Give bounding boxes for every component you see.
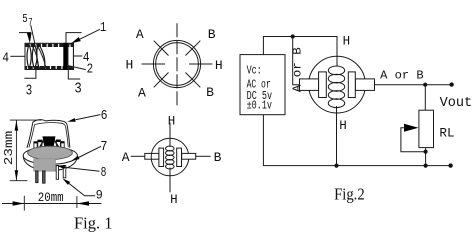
svg-text:5: 5 [22,12,27,26]
svg-text:1: 1 [100,21,106,36]
svg-text:B: B [208,27,216,42]
svg-text:A or B: A or B [290,47,304,92]
svg-text:±0.1v: ±0.1v [247,99,272,113]
svg-text:B: B [206,85,214,100]
svg-text:B: B [214,150,222,165]
svg-text:Fig.2: Fig.2 [334,184,365,203]
svg-text:H: H [339,119,347,133]
svg-text:Vc:: Vc: [247,63,262,77]
svg-text:23mm: 23mm [2,131,16,165]
svg-text:A: A [138,86,146,101]
svg-text:RL: RL [439,125,454,140]
svg-text:2: 2 [87,62,94,77]
svg-text:Fig. 1: Fig. 1 [74,214,113,233]
svg-text:H: H [215,58,223,73]
svg-text:H: H [343,34,351,48]
svg-text:4: 4 [2,51,9,66]
svg-text:9: 9 [96,187,103,202]
svg-text:A: A [136,27,144,42]
svg-text:7: 7 [28,17,32,29]
svg-text:20mm: 20mm [38,190,64,205]
svg-text:H: H [170,193,178,207]
svg-text:6: 6 [101,109,108,124]
svg-text:H: H [168,114,176,128]
svg-text:3: 3 [74,80,81,97]
svg-text:A or B: A or B [380,68,424,82]
svg-text:Vout: Vout [440,96,473,111]
svg-text:8: 8 [101,166,107,181]
svg-text:3: 3 [26,83,33,100]
svg-text:A: A [122,150,130,165]
svg-text:H: H [125,57,133,72]
svg-text:7: 7 [100,140,107,155]
